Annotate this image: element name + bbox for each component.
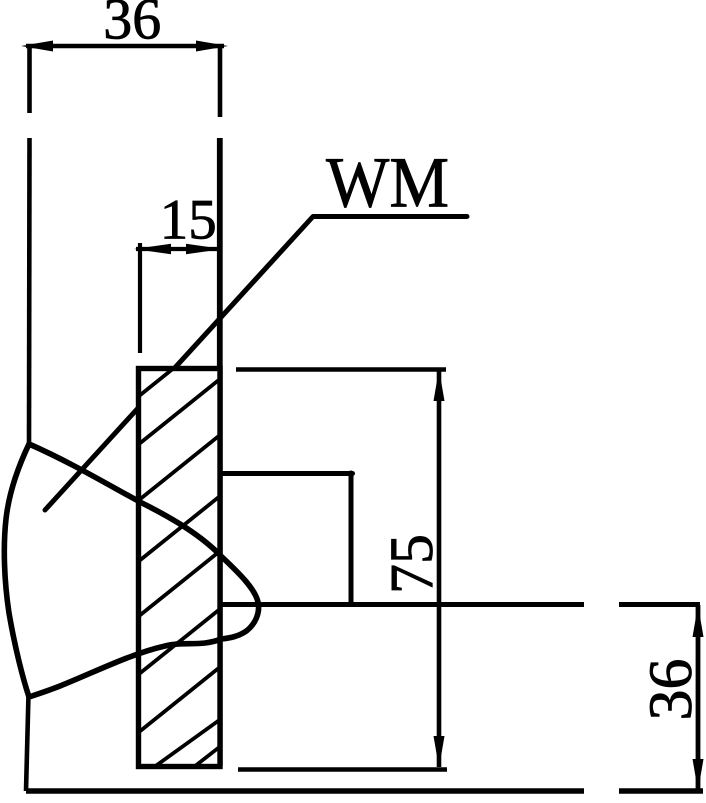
left extension line lower segment (down to weld nugget corner) — [27, 138, 32, 446]
step line horizontal (upper) — [221, 471, 353, 476]
bottom sheet line left part — [26, 788, 584, 794]
arrowhead top of 75 dimension — [434, 369, 445, 401]
arrowhead bottom of 75 dimension — [434, 736, 445, 768]
arrowhead bottom of right 36 dimension — [693, 759, 704, 791]
dimension line for 36 (top) — [26, 44, 224, 49]
leader line from WM to weld nugget — [45, 217, 467, 511]
lower-left sheet edge line — [26, 694, 29, 791]
extension line top of 75 dimension — [236, 367, 446, 372]
hatched sheet section (rectangle) — [139, 369, 221, 767]
arrowhead left of top 36 dimension — [21, 41, 53, 52]
right extension line upper segment — [218, 44, 223, 117]
svg-text:75: 75 — [379, 534, 446, 594]
bottom sheet line right part (after break) — [619, 788, 703, 794]
step line vertical — [349, 473, 354, 604]
centre line right part (after break) — [619, 602, 700, 607]
dimension line for 75 — [437, 371, 442, 767]
svg-text:15: 15 — [160, 189, 217, 252]
left extension line upper segment — [27, 44, 32, 113]
arrowhead right of top 36 dimension — [196, 41, 228, 52]
extension line bottom of 75 dimension — [238, 767, 447, 772]
svg-text:36: 36 — [638, 659, 705, 721]
dimension line for 15 — [136, 247, 222, 251]
extension line left of 15 dimension — [138, 243, 142, 353]
dimension line for right 36 — [696, 605, 701, 790]
arrowhead top of right 36 dimension — [693, 605, 704, 637]
arrowhead right of 15 dimension — [186, 244, 223, 254]
hatch lines — [139, 327, 240, 770]
arrowhead left of 15 dimension — [134, 244, 171, 254]
weld nugget outline — [4, 444, 258, 697]
right extension line long segment (becomes sheet right edge) — [217, 138, 223, 766]
centre line left part — [221, 602, 584, 607]
svg-text:WM: WM — [326, 143, 449, 223]
